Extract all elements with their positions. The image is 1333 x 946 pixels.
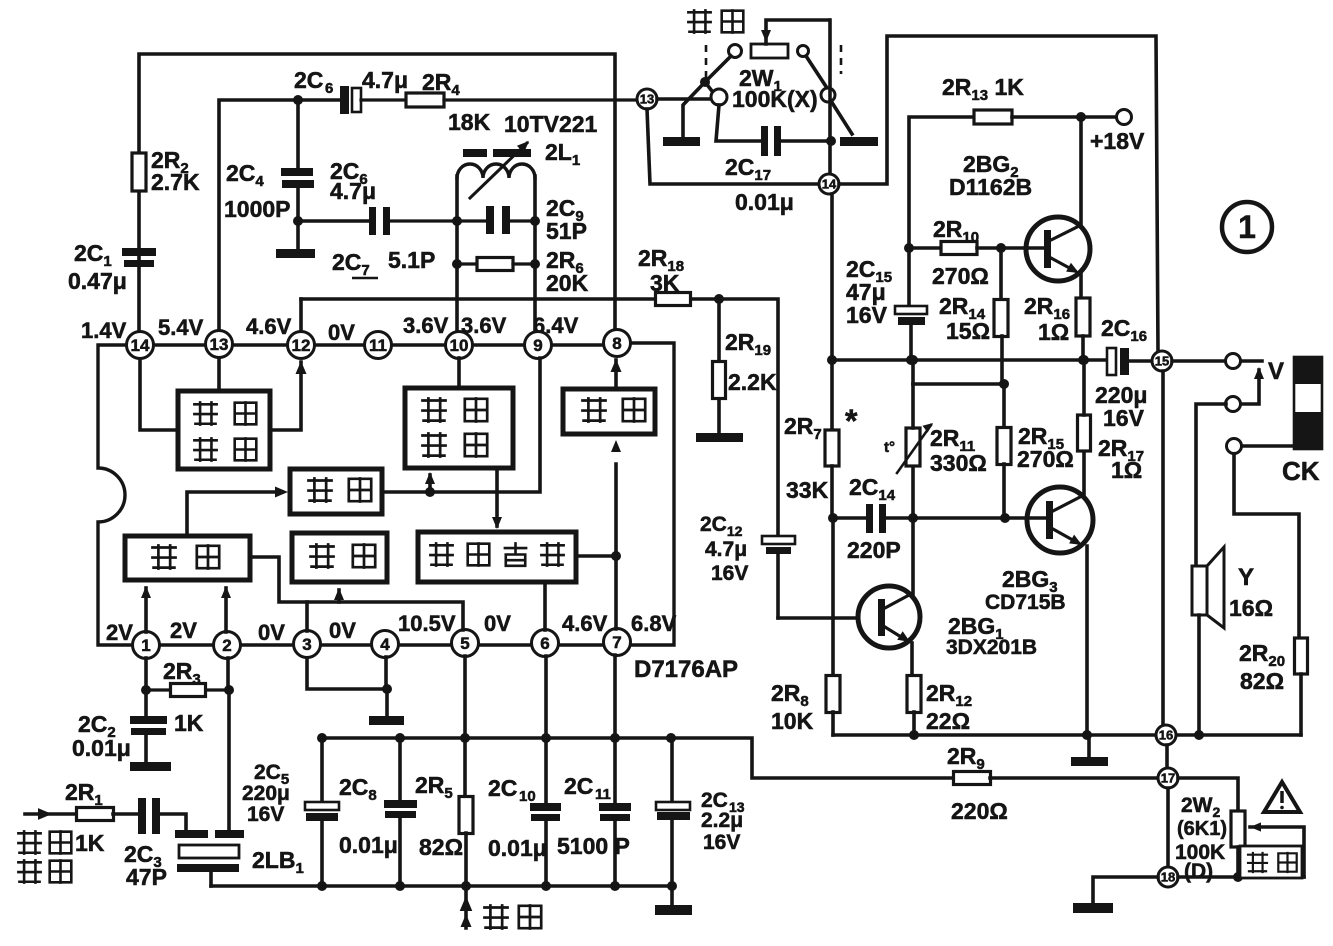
resistor R11 330 thermistor <box>884 384 987 518</box>
capacitor C9 51P <box>457 195 587 244</box>
potentiometer W1 100K <box>729 20 830 112</box>
block FM detector <box>405 388 513 468</box>
svg-text:2.7K: 2.7K <box>151 169 200 195</box>
resistor R7 33K <box>784 403 858 503</box>
node junction 2C4 lower <box>293 216 303 226</box>
svg-text:47P: 47P <box>126 864 167 890</box>
wire regulator supply <box>250 557 463 631</box>
svg-text:220μ: 220μ <box>242 782 290 805</box>
svg-text:(D): (D) <box>1184 860 1213 883</box>
svg-text:6: 6 <box>540 634 549 653</box>
wire filter to pin9 <box>382 358 540 492</box>
svg-text:10: 10 <box>519 788 536 805</box>
resistor R10 270 <box>909 216 1044 289</box>
terminal 13 <box>637 89 657 109</box>
connector out 2 <box>1226 397 1241 412</box>
transistor Q2 2BG2 <box>949 151 1090 281</box>
svg-text:1000P: 1000P <box>224 196 291 222</box>
wire out2 arrow <box>1241 367 1264 404</box>
terminal 16 <box>1156 725 1176 745</box>
wire pin6 to attenuator <box>543 582 547 630</box>
voltage 3.6V b <box>461 313 507 338</box>
wire 2C4 column <box>296 100 300 250</box>
voltage 6.4V <box>533 313 579 338</box>
svg-text:16V: 16V <box>703 831 740 854</box>
wire pin1 down <box>144 658 148 717</box>
capacitor C10 0.01u <box>488 656 561 886</box>
svg-text:330Ω: 330Ω <box>930 450 987 476</box>
wire 2BG2 emitter <box>1079 272 1083 299</box>
svg-text:9: 9 <box>533 336 542 355</box>
node speaker rail <box>1194 730 1204 740</box>
svg-text:Y: Y <box>1238 564 1254 591</box>
wire +18V terminal <box>1081 110 1145 155</box>
capacitor C12 4.7u <box>700 513 795 618</box>
node C10 top <box>541 733 551 743</box>
node C11 top <box>610 733 620 743</box>
svg-text:1: 1 <box>141 636 150 655</box>
node R10 R14 <box>996 243 1006 253</box>
svg-text:5.4V: 5.4V <box>158 315 204 340</box>
voltage 2V b <box>170 618 197 643</box>
pin 14 <box>127 332 154 359</box>
svg-text:3: 3 <box>302 635 311 654</box>
voltage 3.6V a <box>403 313 449 338</box>
resistor R18 3K <box>638 245 691 306</box>
node R5 rail <box>460 733 470 743</box>
ground amp rail <box>1071 735 1108 766</box>
pin 10 <box>446 332 473 359</box>
svg-text:4: 4 <box>380 635 390 654</box>
svg-text:1Ω: 1Ω <box>1038 319 1069 345</box>
pin 13 <box>206 331 233 358</box>
svg-text:CK: CK <box>1282 456 1320 486</box>
wire pin13 to audio amp <box>217 358 221 391</box>
node C8 bottom <box>395 881 405 891</box>
resistor R17 1ohm <box>1078 360 1145 494</box>
svg-text:270Ω: 270Ω <box>1017 446 1074 472</box>
block IF amp <box>125 536 250 580</box>
svg-text:2V: 2V <box>106 620 133 645</box>
label volume <box>1240 846 1302 878</box>
capacitor C16 220u <box>1095 315 1151 431</box>
resistor R6 20K <box>457 247 589 296</box>
capacitor C11 5100P <box>557 738 631 886</box>
svg-text:16: 16 <box>1159 728 1173 743</box>
node C5 bottom <box>317 881 327 891</box>
block attenuator <box>418 532 576 582</box>
wire ground bus <box>211 884 674 888</box>
wire pin12 up <box>299 299 303 331</box>
pin 9 <box>525 332 552 359</box>
svg-text:14: 14 <box>822 177 837 192</box>
resistor R19 2.2K <box>713 299 777 433</box>
wire arrow to FM det bottom <box>425 472 435 492</box>
node base node 2BG1 <box>828 513 838 523</box>
filter LB1 ceramic <box>175 830 304 886</box>
warning triangle <box>1264 782 1300 812</box>
node +18V <box>1076 112 1086 122</box>
svg-text:22Ω: 22Ω <box>926 708 970 734</box>
svg-text:2C: 2C <box>294 67 323 93</box>
resistor R3 1K <box>146 658 229 736</box>
node W2 bottom <box>1233 872 1243 882</box>
svg-text:18: 18 <box>1161 870 1175 885</box>
node C13 bottom <box>667 881 677 891</box>
resistor R20 82 <box>1239 638 1308 735</box>
wire cap rail <box>322 738 955 778</box>
wire term18 ground <box>1093 877 1158 903</box>
resistor R13 1K <box>909 74 1080 248</box>
voltage 0V a <box>328 320 355 345</box>
svg-text:16V: 16V <box>247 803 284 826</box>
IC U1 D7176AP outline <box>98 343 738 683</box>
voltage 6.8V <box>631 611 677 636</box>
wire term14 down <box>830 194 834 431</box>
svg-text:16Ω: 16Ω <box>1229 595 1273 621</box>
voltage 1.4V <box>81 318 127 343</box>
ground R19 <box>696 433 743 442</box>
svg-text:1Ω: 1Ω <box>1111 457 1142 483</box>
svg-text:2C: 2C <box>488 775 517 801</box>
transistor Q1 2BG1 <box>858 518 1037 659</box>
svg-text:2C: 2C <box>564 773 593 799</box>
resistor R9 220 <box>947 743 1008 824</box>
node pin7 net <box>611 551 621 561</box>
svg-text:0.47μ: 0.47μ <box>68 268 127 294</box>
svg-text:3DX201B: 3DX201B <box>946 636 1037 659</box>
ground C2 <box>130 762 171 771</box>
node C10 bottom <box>541 881 551 891</box>
svg-text:1K: 1K <box>75 830 105 856</box>
pin 2 <box>214 632 241 659</box>
node junction 2C4/2C6 <box>293 95 303 105</box>
wire pin7 column to follower <box>611 440 621 629</box>
svg-text:CD715B: CD715B <box>985 591 1066 614</box>
wire term16 to 17 <box>1165 745 1169 768</box>
capacitor C15 47u <box>846 248 927 360</box>
wire term17 to 18 <box>1166 788 1170 867</box>
svg-text:0V: 0V <box>328 320 355 345</box>
node tank bot left <box>452 259 462 269</box>
wire W1 wiper column <box>828 20 832 174</box>
potentiometer W2 100K <box>1175 778 1245 883</box>
pin 5 <box>452 630 479 657</box>
svg-text:10.5V: 10.5V <box>398 611 456 636</box>
pin 1 <box>133 632 160 659</box>
capacitor C13 2.2u <box>656 738 745 905</box>
svg-text:1K: 1K <box>174 710 204 736</box>
ground 2C4 <box>276 249 315 258</box>
wire pin13 column and feedback row <box>219 100 339 344</box>
node C8 top <box>395 733 405 743</box>
svg-text:16V: 16V <box>711 562 748 585</box>
wire C12 to 2BG1 base <box>778 616 858 620</box>
svg-text:270Ω: 270Ω <box>932 263 989 289</box>
wire pin7 down <box>613 655 617 738</box>
wire IF amp to filter <box>187 487 288 537</box>
capacitor C6 4.7u series <box>294 67 408 114</box>
svg-text:220P: 220P <box>847 537 901 563</box>
wire attenuator to pin7 net <box>576 554 616 558</box>
svg-text:1.4V: 1.4V <box>81 318 127 343</box>
voltage 4.6V <box>246 314 292 339</box>
node rail R11 <box>908 355 918 365</box>
node C14 R11 node <box>908 513 918 523</box>
pin 8 <box>604 330 631 357</box>
node R5 bus <box>461 881 471 891</box>
capacitor C5 220u <box>242 738 339 886</box>
svg-text:8: 8 <box>612 334 621 353</box>
label CK <box>1282 456 1320 486</box>
dashes W1 right <box>840 45 843 74</box>
voltage 5.4V <box>158 315 204 340</box>
terminal 14 <box>819 174 839 194</box>
svg-text:10K: 10K <box>771 708 814 734</box>
svg-text:D1162B: D1162B <box>949 174 1032 200</box>
capacitor C1 0.47u <box>68 240 156 294</box>
capacitor C8 0.01u <box>339 738 417 886</box>
wire pin10 to FM det <box>457 358 461 388</box>
transistor Q3 2BG3 <box>985 487 1093 614</box>
svg-text:0V: 0V <box>329 618 356 643</box>
resistor R12 22 <box>907 676 972 736</box>
svg-text:D7176AP: D7176AP <box>634 656 738 683</box>
svg-text:5.1P: 5.1P <box>388 247 435 273</box>
wire audio amp to pin12 <box>270 361 307 430</box>
inductor L1 tank coil <box>457 139 580 345</box>
node R17 rail <box>1079 355 1089 365</box>
node C11 bottom <box>610 881 620 891</box>
svg-text:7: 7 <box>612 633 621 652</box>
node R12 rail <box>909 730 919 740</box>
wire right rail <box>832 358 1108 362</box>
wire R1 to C3 <box>113 812 138 816</box>
node R15 bottom <box>1000 513 1010 523</box>
svg-text:1: 1 <box>1238 209 1256 245</box>
resistor R1 1K <box>77 808 114 821</box>
pin 12 <box>288 332 315 359</box>
voltage 10.5V <box>398 611 456 636</box>
pin 7 <box>604 629 631 656</box>
svg-text:17: 17 <box>1161 771 1175 786</box>
resistor R8 10K <box>771 518 840 735</box>
block follower <box>563 389 655 434</box>
wire speaker down <box>1197 615 1201 735</box>
svg-text:0.01μ: 0.01μ <box>735 189 794 215</box>
capacitor C14 220P <box>833 474 914 563</box>
connector out 1 <box>1226 354 1241 369</box>
pin 6 <box>532 630 559 657</box>
ground pins 3-4 <box>369 716 404 725</box>
svg-text:16V: 16V <box>846 302 888 328</box>
svg-text:6.8V: 6.8V <box>631 611 677 636</box>
svg-text:82Ω: 82Ω <box>419 834 463 860</box>
node R18 R19 <box>714 294 724 304</box>
wire pin2 to LB1 <box>227 690 231 831</box>
label power <box>483 904 541 930</box>
svg-text:4.7μ: 4.7μ <box>362 67 408 93</box>
svg-text:0V: 0V <box>258 620 285 645</box>
wire pin14 to audio amp <box>140 359 178 430</box>
wire 2BG1 emitter <box>910 643 914 676</box>
svg-text:4.7μ: 4.7μ <box>330 178 376 204</box>
wire top rail pin14 to pin8 <box>139 54 615 345</box>
svg-text:220Ω: 220Ω <box>951 798 1008 824</box>
svg-text:14: 14 <box>131 336 150 355</box>
svg-text:2V: 2V <box>170 618 197 643</box>
node tank top left <box>452 216 462 226</box>
svg-text:+18V: +18V <box>1090 128 1145 154</box>
wire 2BG3 emitter <box>1085 546 1089 735</box>
pin 11 <box>365 332 392 359</box>
svg-text:0V: 0V <box>484 611 511 636</box>
resistor R14 15 <box>939 248 1008 384</box>
resistor R4 18K <box>406 69 637 137</box>
svg-text:5100 P: 5100 P <box>557 833 630 859</box>
svg-text:3.6V: 3.6V <box>403 313 449 338</box>
svg-text:4.6V: 4.6V <box>562 611 608 636</box>
svg-text:4.6V: 4.6V <box>246 314 292 339</box>
node emitter rail <box>1082 730 1092 740</box>
node pin2 junction <box>224 685 234 695</box>
figure mark 1 <box>1222 202 1272 252</box>
connector out 3 <box>1227 439 1242 454</box>
wire out1 V <box>1241 358 1284 385</box>
wire pin2 down <box>226 658 230 690</box>
wire pin3 pin4 ground <box>307 657 387 716</box>
capacitor C3 47P <box>124 798 167 890</box>
svg-text:33K: 33K <box>786 477 829 503</box>
label tone <box>687 9 743 34</box>
speaker Y <box>1192 547 1273 628</box>
svg-text:t°: t° <box>884 439 895 456</box>
cable marker stripes <box>1294 357 1322 449</box>
svg-text:11: 11 <box>369 336 387 355</box>
wire term18 right <box>1178 875 1304 879</box>
svg-text:0.01μ: 0.01μ <box>72 735 131 761</box>
wire output to speaker conn <box>1172 359 1226 363</box>
wire FM det to attenuator <box>492 468 502 529</box>
svg-text:2: 2 <box>222 636 231 655</box>
terminal 15 <box>1152 351 1172 371</box>
wire C3 to filter <box>160 814 186 831</box>
svg-text:0.01μ: 0.01μ <box>339 832 398 858</box>
svg-text:V: V <box>1268 358 1284 385</box>
svg-text:2.2K: 2.2K <box>728 369 777 395</box>
svg-text:16V: 16V <box>1103 405 1145 431</box>
svg-text:12: 12 <box>292 336 311 355</box>
voltage 0V d <box>484 611 511 636</box>
block filter <box>290 469 382 514</box>
svg-text:5: 5 <box>460 634 469 653</box>
wire W1 left links <box>683 56 731 137</box>
terminal 18 <box>1158 867 1178 887</box>
wire pin5 column <box>463 656 467 797</box>
label IF input <box>17 830 71 884</box>
svg-text:*: * <box>845 403 858 439</box>
node pin1 junction <box>141 685 151 695</box>
node C5 top <box>317 733 327 743</box>
svg-text:11: 11 <box>595 786 611 803</box>
node R13 base <box>904 243 914 253</box>
svg-text:20K: 20K <box>546 270 589 296</box>
wire follower to pin8 <box>611 359 622 389</box>
wire R18 row <box>301 299 778 536</box>
wire IF input <box>25 779 105 856</box>
svg-text:18K: 18K <box>448 109 491 135</box>
ground term18 <box>1073 903 1113 913</box>
wire W2 wiper <box>1250 822 1304 877</box>
svg-text:100K(X): 100K(X) <box>732 86 818 112</box>
capacitor C7 5.1P <box>332 207 457 279</box>
node C13 top <box>666 733 676 743</box>
capacitor C17 0.01u <box>716 105 831 215</box>
dashes W1 left <box>705 45 708 79</box>
voltage 0V c <box>329 618 356 643</box>
node tank top right <box>530 216 540 226</box>
ground bus right <box>655 905 692 915</box>
wire R5 down power <box>460 833 473 928</box>
terminal 17 <box>1158 768 1178 788</box>
node pin34 gnd <box>382 684 392 694</box>
svg-text:13: 13 <box>640 92 654 107</box>
node R16 rail <box>1078 355 1088 365</box>
resistor R5 82 <box>415 772 473 860</box>
voltage 2V a <box>106 620 133 645</box>
wire pin13 down to 14 <box>647 109 819 184</box>
svg-text:10: 10 <box>450 336 469 355</box>
voltage 4.6V b <box>562 611 608 636</box>
svg-text:10TV221: 10TV221 <box>504 111 598 137</box>
wire R11 top row <box>913 360 1004 384</box>
block regulator <box>292 533 387 582</box>
svg-text:82Ω: 82Ω <box>1240 668 1284 694</box>
wire base net right <box>913 516 1048 520</box>
svg-text:15Ω: 15Ω <box>946 318 990 344</box>
node W1 left node <box>700 77 710 87</box>
wire out2 left <box>1196 404 1226 566</box>
wire emitter rail <box>833 733 1301 737</box>
wire pin13 to W1 lug <box>657 89 727 105</box>
node filter net <box>425 487 435 497</box>
ground W1 right <box>840 137 878 146</box>
node R14 bottom node <box>999 379 1009 389</box>
resistor R2 2.7K <box>132 147 200 195</box>
svg-text:51P: 51P <box>546 218 587 244</box>
capacitor C2 0.01u <box>72 711 167 762</box>
wire amp frame <box>839 36 1158 351</box>
pin 3 <box>294 631 321 658</box>
svg-text:2.2μ: 2.2μ <box>701 809 743 832</box>
resistor R15 270 <box>997 384 1074 518</box>
wire row 2C7 <box>298 219 369 223</box>
wire pin15 down <box>1161 371 1165 724</box>
capacitor C4 1000P <box>224 160 314 222</box>
voltage 0V b <box>258 620 285 645</box>
wire R9 to pin17 <box>990 776 1158 780</box>
wire pin2 to IF amp <box>221 586 231 632</box>
wire out3 down <box>1234 454 1299 638</box>
node C15 rail <box>906 355 916 365</box>
svg-text:3K: 3K <box>650 270 680 296</box>
wire W1 right to ground <box>806 56 852 134</box>
wire out3 stripes <box>1242 444 1295 448</box>
block audio amp <box>178 391 270 469</box>
svg-text:0.01μ: 0.01μ <box>488 835 547 861</box>
wire pin1 to IF amp <box>141 586 151 632</box>
node C17 right <box>826 136 836 146</box>
